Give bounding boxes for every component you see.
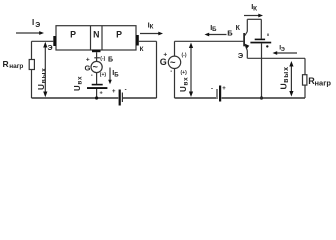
svg-text:-: - [170, 69, 172, 75]
wire G up to base wire [174, 41, 176, 56]
svg-text:(-): (-) [182, 53, 187, 59]
svg-text:+: + [222, 86, 226, 92]
svg-text:~: ~ [93, 62, 98, 72]
wire G down to rail [174, 69, 176, 99]
wire emitter to left corner [32, 40, 54, 42]
svg-text:нагр: нагр [9, 63, 23, 70]
resistor Rнагр (right) [303, 75, 307, 85]
label Iк current [148, 20, 154, 30]
wire battery down to rail [261, 43, 263, 98]
battery GB4 (bias, right circuit) [211, 86, 226, 102]
svg-text:+: + [163, 52, 167, 59]
svg-text:~: ~ [170, 58, 176, 69]
label Iб current (right) [210, 23, 217, 33]
svg-text:вых: вых [40, 67, 47, 83]
svg-text:P: P [116, 29, 122, 39]
svg-text:К: К [140, 46, 144, 53]
emitter contact bar [53, 36, 56, 46]
wire right vertical to resistor [304, 58, 306, 74]
wire resistor to rail [304, 85, 306, 98]
arrow Uвх (right, double-headed) [189, 43, 193, 98]
svg-text:R: R [3, 59, 9, 69]
node junction (left rail) [95, 96, 98, 99]
svg-text:-: - [125, 88, 127, 94]
arrow Iэ [16, 31, 44, 35]
svg-text:Э: Э [35, 22, 40, 29]
wire down to battery [260, 19, 262, 38]
wire G to battery [96, 73, 98, 84]
arrow Iб (down) [108, 68, 112, 85]
transistor structure box Q1 (p-n-p) [56, 26, 136, 50]
svg-text:-: - [211, 87, 213, 93]
generator G (right circuit) [160, 56, 181, 69]
node junction (right rail) [260, 96, 263, 99]
label Uвх (right) [179, 77, 189, 92]
svg-text:G: G [85, 64, 91, 73]
svg-text:+: + [112, 89, 116, 95]
wire bottom rail right circuit (right segment) [222, 97, 306, 99]
wire battery to rail [96, 89, 98, 98]
wire collector to right corner [139, 40, 157, 42]
node tick on base stem [94, 57, 100, 59]
label Uвх (left) [73, 76, 83, 91]
arrow Uвых (right, double-headed) [289, 61, 293, 97]
svg-text:-: - [91, 73, 93, 79]
svg-text:+: + [100, 91, 103, 97]
svg-text:Э: Э [281, 47, 285, 53]
wire bottom rail right circuit (left segment) [175, 97, 217, 99]
svg-text:U: U [73, 85, 82, 91]
svg-text:+: + [86, 56, 90, 63]
arrow Uвых (left, double-headed) [43, 42, 47, 97]
svg-text:вх: вх [76, 76, 83, 85]
wire emitter horizontal [247, 57, 305, 59]
label Iк current (right) [251, 2, 257, 12]
svg-text:Б: Б [212, 27, 217, 33]
svg-text:I: I [32, 18, 34, 27]
svg-text:К: К [236, 25, 241, 32]
svg-text:К: К [253, 6, 257, 13]
battery GB1 (collector supply, left circuit) [112, 88, 127, 106]
svg-text:N: N [93, 29, 99, 39]
svg-text:Э: Э [238, 51, 244, 60]
svg-text:вх: вх [182, 77, 189, 86]
svg-text:Б: Б [227, 29, 233, 38]
wire left vertical upper [31, 41, 33, 59]
arrow Iэ (right, pointing left) [273, 51, 298, 55]
svg-text:(+): (+) [181, 70, 188, 76]
svg-text:(+): (+) [100, 72, 107, 78]
svg-text:P: P [70, 29, 76, 39]
label Rнагр (right) [308, 76, 331, 88]
svg-text:нагр: нагр [315, 78, 332, 87]
wire left vertical lower [31, 70, 33, 99]
battery GB2 (base bias, left circuit) [87, 84, 107, 89]
wire bottom rail right segment [123, 97, 157, 99]
arrow Iк (right) [244, 14, 263, 18]
label Iэ current [32, 18, 40, 29]
transistor Q1 symbol (pnp) [243, 19, 249, 58]
svg-text:Б: Б [108, 57, 113, 64]
arrow Iб (right, pointing left) [205, 33, 227, 37]
svg-text:К: К [150, 24, 154, 31]
label Uвых (left) [37, 67, 47, 90]
svg-text:вых: вых [283, 66, 290, 83]
wire collector top [247, 18, 261, 20]
svg-text:Б: Б [114, 72, 119, 78]
label Rнагр (left) [3, 59, 24, 70]
svg-text:(-): (-) [100, 56, 105, 62]
resistor Rнагр (left) [29, 60, 34, 70]
arrow Iк [140, 32, 163, 36]
battery GB3 (collector supply, right circuit) [250, 34, 271, 48]
generator G (left circuit) [85, 61, 103, 72]
label Iэ current (right) [279, 44, 285, 53]
wire right vertical [156, 41, 158, 98]
wire base (to transistor) [175, 40, 244, 42]
svg-text:Э: Э [47, 43, 52, 52]
wire bottom rail left segment [32, 97, 119, 99]
base contact bar [92, 50, 101, 53]
wire base stem [96, 52, 98, 61]
label Iб current [112, 68, 119, 78]
label Uвых (right) [279, 66, 290, 89]
collector contact bar [136, 35, 139, 46]
